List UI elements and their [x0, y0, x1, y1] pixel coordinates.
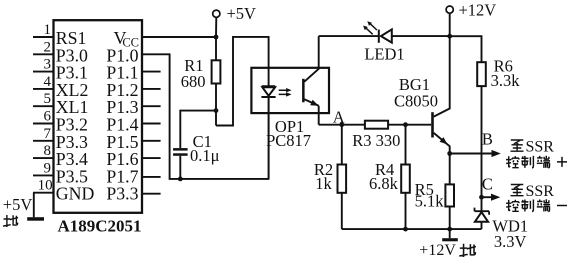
- svg-text:680: 680: [181, 72, 206, 91]
- svg-text:1: 1: [44, 22, 52, 38]
- svg-text:R3 330: R3 330: [352, 131, 400, 150]
- svg-text:10: 10: [38, 178, 53, 194]
- svg-text:8: 8: [44, 143, 52, 159]
- svg-text:+12V: +12V: [459, 0, 497, 19]
- svg-text:P3.3: P3.3: [106, 184, 138, 204]
- svg-text:1k: 1k: [315, 174, 332, 193]
- svg-text:PC817: PC817: [266, 131, 311, 150]
- svg-text:3: 3: [44, 57, 52, 73]
- svg-text:+5V: +5V: [227, 4, 257, 23]
- svg-text:A189C2051: A189C2051: [57, 216, 141, 235]
- svg-text:0.1μ: 0.1μ: [190, 146, 220, 165]
- svg-text:B: B: [482, 130, 493, 149]
- svg-text:4: 4: [44, 74, 52, 90]
- svg-text:SSR: SSR: [526, 138, 555, 155]
- svg-text:5: 5: [44, 91, 52, 107]
- svg-text:C8050: C8050: [394, 91, 438, 110]
- svg-text:3.3V: 3.3V: [494, 232, 527, 251]
- svg-text:GND: GND: [56, 184, 95, 204]
- svg-text:6.8k: 6.8k: [369, 174, 399, 193]
- svg-text:2: 2: [44, 39, 52, 55]
- svg-text:+5V: +5V: [3, 195, 33, 214]
- svg-text:SSR: SSR: [526, 183, 555, 200]
- svg-text:A: A: [333, 107, 345, 126]
- svg-text:6: 6: [44, 109, 52, 125]
- svg-text:3.3k: 3.3k: [491, 71, 521, 90]
- svg-text:LED1: LED1: [364, 45, 404, 64]
- svg-text:5.1k: 5.1k: [415, 192, 445, 211]
- svg-text:+12V: +12V: [419, 242, 456, 259]
- svg-text:9: 9: [44, 160, 52, 176]
- svg-text:7: 7: [44, 126, 52, 142]
- svg-text:C: C: [482, 175, 493, 194]
